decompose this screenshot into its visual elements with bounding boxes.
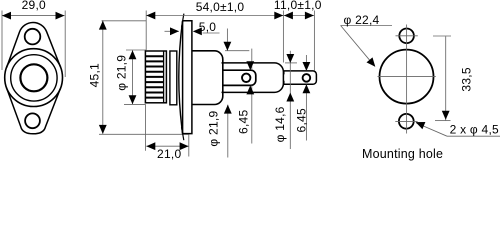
top drill hole (399, 29, 414, 44)
dimension 54,0 +/-1,0 (146, 15, 283, 17)
svg-text:21,0: 21,0 (157, 147, 181, 161)
dimension phi 21,9 (body) (226, 29, 228, 51)
dimension 29,0 (2, 15, 65, 17)
dimension 6,45 (blade) (305, 55, 307, 71)
flange curved face (179, 21, 183, 134)
flange boss outer circle (5, 49, 63, 107)
terminal blade (284, 71, 317, 84)
top mounting hole (25, 29, 41, 45)
dimension phi 14,6 (289, 51, 291, 149)
inner sleeve with hole (222, 70, 256, 85)
svg-text:11,0±1,0: 11,0±1,0 (274, 0, 322, 12)
blade hole (303, 74, 311, 82)
flange curved face top extension (182, 14, 184, 28)
dimension 45,1 (102, 20, 104, 134)
flange middle circle (dia 21.9 opening) (11, 55, 57, 101)
bushing (170, 51, 177, 105)
dimension phi 21,9 (cap) (132, 50, 134, 104)
svg-text:φ 21,9: φ 21,9 (115, 55, 129, 91)
flange (side view) (183, 21, 192, 134)
dimension 33,5 (445, 36, 447, 120)
flange plate outline (front view) (7, 23, 61, 134)
knurl band end line (163, 51, 165, 103)
dimension 6,45 (sleeve) (251, 49, 253, 70)
svg-text:45,1: 45,1 (87, 63, 101, 87)
svg-text:6,45: 6,45 (294, 108, 308, 132)
svg-text:6,45: 6,45 (237, 110, 251, 134)
mounting hole big circle (380, 50, 434, 104)
middle cylinder phi 14,6 (222, 63, 284, 93)
svg-text:33,5: 33,5 (459, 67, 473, 91)
leader phi 22,4 (341, 25, 392, 27)
knurled cap band (145, 51, 166, 103)
centerlines (406, 25, 408, 134)
body cylinder (192, 51, 223, 105)
bottom mounting hole (25, 113, 40, 128)
dimension 5,0 (flange thickness) (165, 30, 179, 32)
knurl ribs (145, 56, 163, 97)
flange curved face bottom extension (182, 127, 184, 140)
dimension 11,0 +/-1,0 (283, 15, 314, 17)
svg-text:54,0±1,0: 54,0±1,0 (196, 0, 245, 14)
svg-text:φ 14,6: φ 14,6 (273, 106, 287, 142)
flange inner circle (20, 64, 47, 91)
svg-text:29,0: 29,0 (22, 0, 46, 12)
svg-text:φ 21,9: φ 21,9 (206, 111, 220, 147)
dimension 21,0 (146, 145, 189, 147)
svg-text:Mounting hole: Mounting hole (362, 147, 443, 161)
svg-text:φ 22,4: φ 22,4 (344, 13, 380, 27)
bottom drill hole (399, 114, 414, 129)
svg-text:2 x φ 4,5: 2 x φ 4,5 (450, 123, 499, 137)
leader 2 x phi 4,5 (416, 123, 447, 136)
svg-text:5,0: 5,0 (199, 20, 217, 34)
sleeve hole (242, 74, 250, 82)
